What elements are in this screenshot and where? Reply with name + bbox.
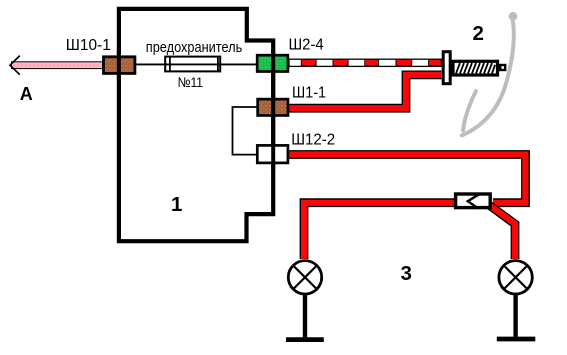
wire striped red-white Sh2-4 to switch — [289, 59, 442, 66]
switch 2 pin — [500, 65, 505, 70]
wire black U link Sh1-1 to Sh12-2 — [233, 107, 258, 155]
fuse F11 inner lines — [169, 57, 171, 72]
lamp left stem — [303, 295, 307, 340]
svg-text:2: 2 — [473, 22, 484, 45]
switch 2 hatch — [456, 63, 495, 73]
wire pink to A — [12, 62, 103, 69]
svg-text:Ш12-2: Ш12-2 — [291, 132, 335, 149]
chevron — [468, 194, 479, 208]
wire red junction to left lamp — [304, 203, 454, 259]
lever gray main curve — [462, 20, 514, 136]
svg-text:3: 3 — [401, 262, 412, 285]
wire through fuse — [135, 63, 257, 65]
connector pad Sh1-1 — [258, 99, 288, 115]
lamp right stem — [513, 295, 517, 340]
switch 2 flange — [443, 52, 450, 84]
svg-text:А: А — [20, 84, 33, 104]
arrow A — [10, 56, 20, 75]
lamp left — [288, 261, 321, 294]
box edge over pads: right — [271, 50, 275, 170]
svg-text:Ш10-1: Ш10-1 — [66, 37, 111, 54]
svg-text:предохранитель: предохранитель — [146, 39, 243, 56]
switch 2 body — [453, 61, 498, 75]
svg-text:1: 1 — [171, 193, 182, 216]
ground left — [286, 337, 324, 342]
connector pad Sh2-4 — [257, 55, 288, 71]
connector inline (chevron box) — [456, 194, 491, 208]
connector pad Sh10-1 — [104, 57, 135, 74]
connector pad Sh12-2 — [257, 145, 288, 163]
lamp right — [499, 261, 532, 294]
wire red Sh1-1 to switch — [289, 75, 442, 108]
lever gray short line — [463, 91, 476, 131]
block unit 1 outline — [119, 9, 273, 241]
ground right — [497, 337, 536, 342]
svg-text:Ш1-1: Ш1-1 — [292, 84, 326, 101]
wire pink texture — [13, 64, 101, 66]
svg-text:Ш2-4: Ш2-4 — [289, 37, 324, 54]
wire red junction to right lamp — [489, 205, 515, 259]
box edge over pads: left — [117, 50, 121, 80]
lever gray knob — [509, 12, 518, 21]
wire red Sh12-2 to junction — [289, 155, 526, 203]
fuse F11 body — [165, 57, 220, 72]
svg-text:№11: №11 — [178, 74, 204, 90]
